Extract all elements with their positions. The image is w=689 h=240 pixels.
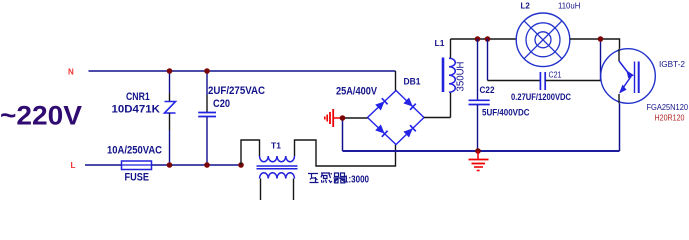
varistor CNR1 10D471K xyxy=(112,71,176,165)
svg-text:1:3000: 1:3000 xyxy=(344,174,369,186)
wire DC minus bottom rail xyxy=(343,150,620,152)
svg-text:T1: T1 xyxy=(271,141,281,151)
inductor L1 350UH xyxy=(435,38,467,118)
junction dot C21 left top xyxy=(485,36,491,42)
svg-text:C22: C22 xyxy=(480,85,495,95)
bridge rectifier DB1 25A/400V xyxy=(336,77,424,145)
svg-text:FGA25N120: FGA25N120 xyxy=(647,103,689,112)
junction dot C21 right top xyxy=(598,36,604,42)
pin DB1 left xyxy=(343,117,368,119)
diode bottom-left xyxy=(375,124,387,136)
diode top-left xyxy=(375,98,387,110)
wire T1 secondary lead left xyxy=(260,179,262,201)
diode bottom-right xyxy=(403,125,415,137)
svg-text:N: N xyxy=(68,68,74,77)
svg-text:C21: C21 xyxy=(549,71,562,80)
svg-text:5UF/400VDC: 5UF/400VDC xyxy=(482,108,530,118)
svg-text:~220V: ~220V xyxy=(0,100,82,130)
svg-text:350UH: 350UH xyxy=(456,62,467,92)
wire T1 primary right jumper to bridge xyxy=(295,140,396,166)
svg-text:25A/400V: 25A/400V xyxy=(336,86,378,98)
wire top rail right xyxy=(570,39,620,49)
junction dot L-C20 xyxy=(204,162,210,168)
svg-text:CNR1: CNR1 xyxy=(126,91,150,103)
junction dot C22 top xyxy=(475,36,481,42)
svg-text:H20R120: H20R120 xyxy=(655,114,685,123)
terminal L label xyxy=(71,161,76,170)
earth ground main (red) xyxy=(469,151,489,171)
junction dot bridge left xyxy=(340,115,346,121)
svg-text:110uH: 110uH xyxy=(558,1,581,10)
capacitor C22 5UF/400VDC xyxy=(469,39,530,151)
AC source label ~220V xyxy=(0,100,82,130)
svg-text:10A/250VAC: 10A/250VAC xyxy=(107,145,162,157)
pin DB1 right xyxy=(424,117,451,119)
svg-text:DB1: DB1 xyxy=(404,77,421,87)
junction dot N-varistor xyxy=(167,68,173,74)
wire top rail left xyxy=(451,38,517,40)
wire T1 primary left jumper xyxy=(241,140,260,165)
svg-text:C20: C20 xyxy=(213,98,230,110)
svg-text:L: L xyxy=(71,161,76,170)
wire N line xyxy=(89,70,396,72)
wire DC minus drop xyxy=(342,118,344,151)
svg-text:L2: L2 xyxy=(521,1,531,10)
junction dot L-varistor xyxy=(167,162,173,168)
diode top-right xyxy=(403,97,415,109)
svg-text:IGBT-2: IGBT-2 xyxy=(659,60,686,69)
junction dot N-C20 xyxy=(204,68,210,74)
inductor L2 110uH (induction coil) xyxy=(516,1,580,66)
fuse FUSE 10A/250VAC xyxy=(107,145,162,184)
capacitor C20 2UF/275VAC xyxy=(198,71,265,165)
pin DB1 top (to N line) xyxy=(395,71,397,91)
transformer T1 互感器 1:3000 xyxy=(257,141,370,186)
junction dot ground rail xyxy=(475,148,481,154)
svg-text:10D471K: 10D471K xyxy=(112,104,160,116)
transistor IGBT-2 FGA25N120 xyxy=(601,49,689,123)
earth ground at bridge left (red, rotated) xyxy=(325,109,343,127)
svg-text:2UF/275VAC: 2UF/275VAC xyxy=(208,85,265,97)
wire IGBT emitter to rail xyxy=(619,103,621,151)
junction dot L-T1 xyxy=(238,162,244,168)
svg-text:FUSE: FUSE xyxy=(125,172,150,184)
capacitor C21 0.27UF/1200VDC xyxy=(488,39,602,102)
svg-text:0.27UF/1200VDC: 0.27UF/1200VDC xyxy=(511,92,571,102)
terminal N label xyxy=(68,68,74,77)
svg-text:L1: L1 xyxy=(435,38,445,48)
wire T1 secondary lead right xyxy=(293,179,295,201)
wire L line xyxy=(85,164,241,166)
